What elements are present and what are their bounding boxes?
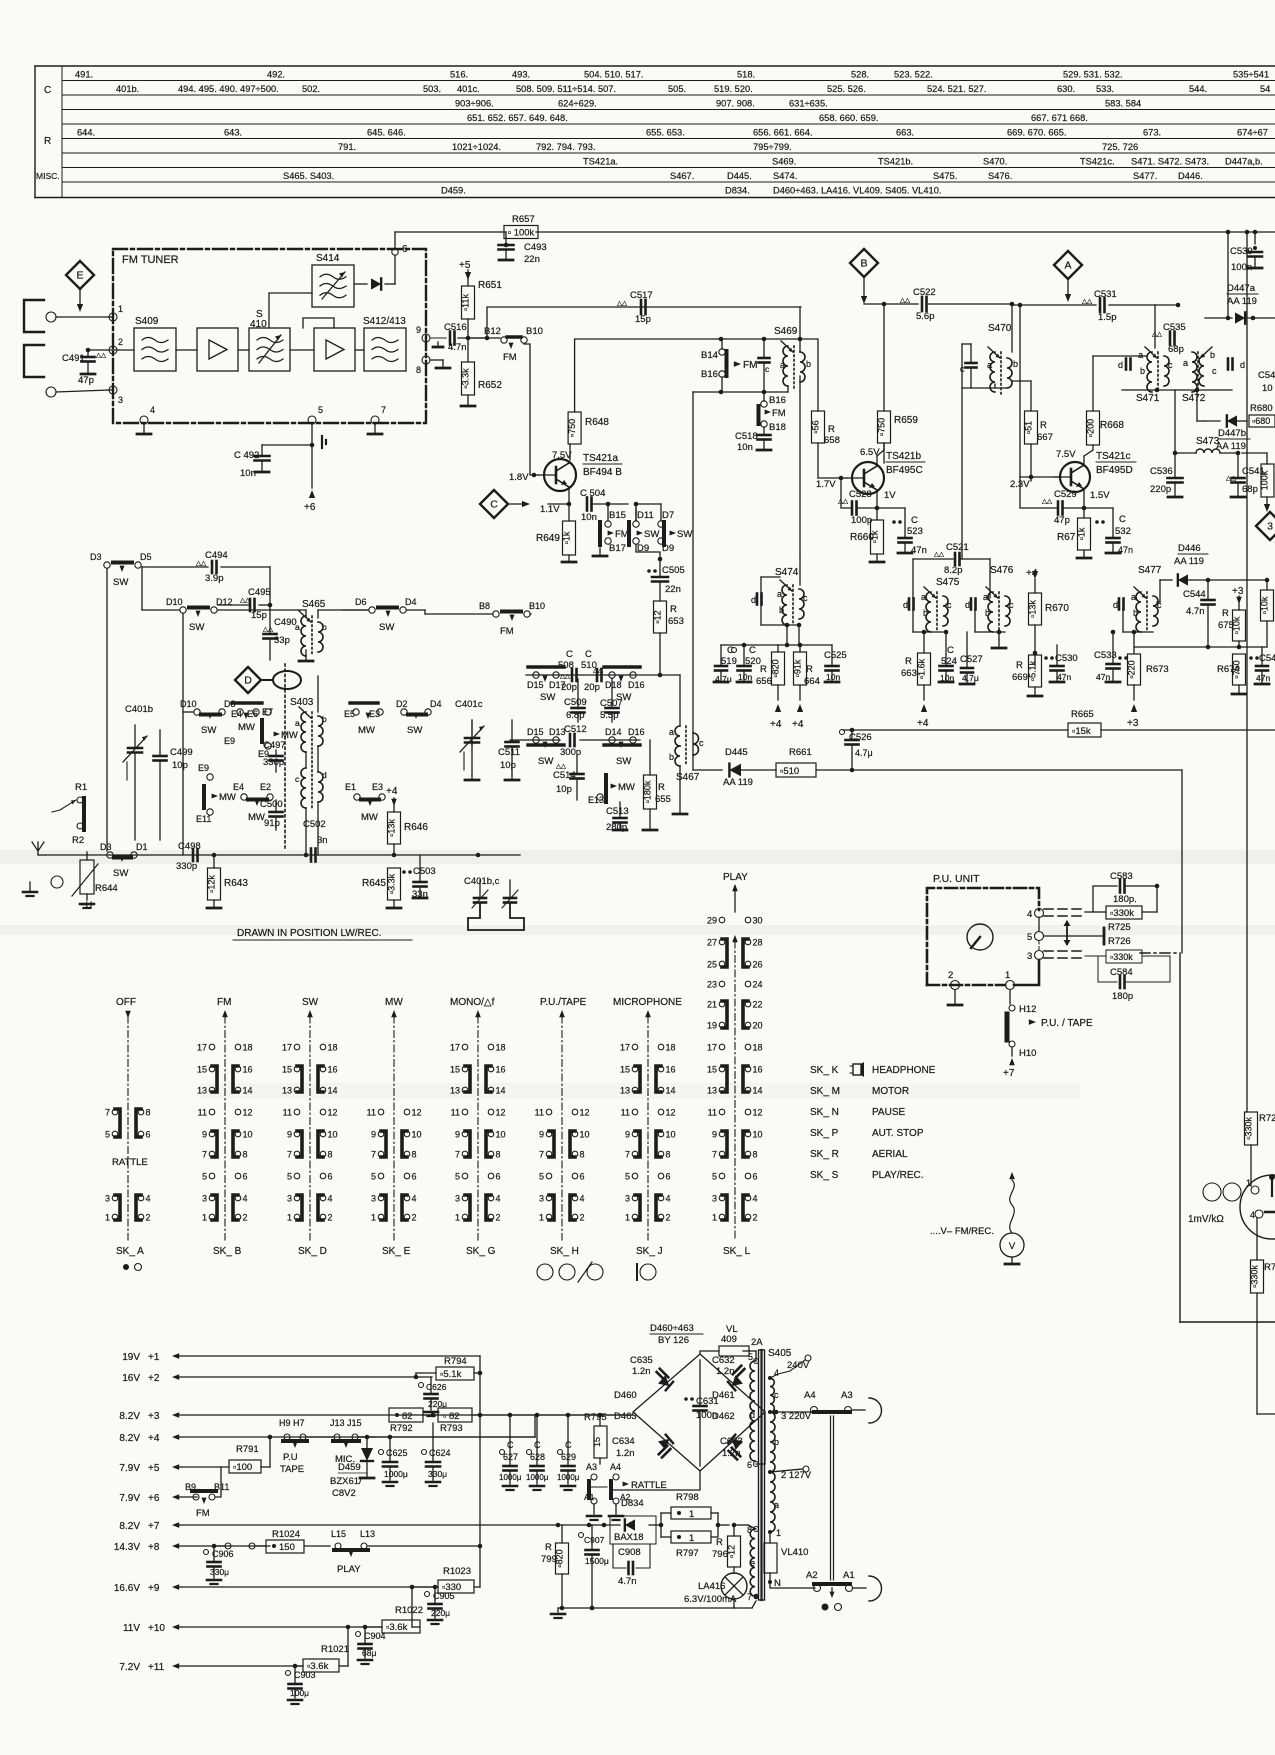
svg-text:BF495D: BF495D xyxy=(1096,465,1133,476)
capacitor C536 xyxy=(1150,453,1183,497)
diode D445 real xyxy=(693,747,776,788)
svg-text:H12: H12 xyxy=(1019,1004,1036,1015)
svg-text:8: 8 xyxy=(416,365,421,375)
svg-text:S475: S475 xyxy=(936,577,960,588)
svg-text:13: 13 xyxy=(197,1086,207,1096)
svg-text:220μ: 220μ xyxy=(431,1608,450,1618)
svg-text:2: 2 xyxy=(328,1213,333,1223)
svg-text:C518: C518 xyxy=(735,431,758,442)
svg-text:532: 532 xyxy=(1115,526,1131,537)
svg-text:d: d xyxy=(1113,600,1118,610)
wire R651 to C516 node xyxy=(466,319,487,340)
svg-text:20p: 20p xyxy=(584,682,600,693)
svg-text:S469.: S469. xyxy=(772,157,796,167)
switch column SK_L header xyxy=(732,935,738,1240)
svg-text:655: 655 xyxy=(655,794,671,805)
resistor R670 xyxy=(1028,593,1070,625)
S405 tap 2 xyxy=(768,1466,812,1481)
svg-text:100μ: 100μ xyxy=(290,1688,309,1698)
svg-text:68μ: 68μ xyxy=(362,1648,376,1658)
svg-text:22n: 22n xyxy=(665,584,681,595)
svg-text:18: 18 xyxy=(666,1043,676,1053)
node B12 B10 xyxy=(458,326,543,363)
svg-text:656. 661. 664.: 656. 661. 664. xyxy=(753,128,812,138)
svg-text:MW: MW xyxy=(361,812,378,823)
RATTLE label xyxy=(112,1157,148,1168)
svg-text:C502: C502 xyxy=(303,819,326,830)
wire S476 bottom xyxy=(975,608,1006,648)
svg-text:13: 13 xyxy=(707,1086,717,1096)
resistor R680 xyxy=(1249,403,1275,427)
capacitor S474 d xyxy=(751,594,762,606)
mains connector upper xyxy=(869,1398,881,1423)
svg-text:2A: 2A xyxy=(751,1337,763,1348)
S405 core xyxy=(759,1350,765,1600)
svg-text:1: 1 xyxy=(625,1213,630,1223)
svg-text:2: 2 xyxy=(753,1213,758,1223)
svg-text:c: c xyxy=(774,1390,779,1400)
resistor R644 xyxy=(72,852,118,911)
resistor R797 xyxy=(661,1513,729,1559)
svg-text:100n: 100n xyxy=(1231,262,1252,273)
svg-text:R644: R644 xyxy=(95,883,118,894)
svg-text:B11: B11 xyxy=(214,1482,229,1492)
svg-text:S412/413: S412/413 xyxy=(363,316,406,327)
svg-text:c: c xyxy=(947,600,952,610)
svg-text:8.2p: 8.2p xyxy=(944,565,963,576)
svg-text:10p: 10p xyxy=(172,760,188,771)
capacitor C514 xyxy=(553,755,584,800)
svg-text:9: 9 xyxy=(712,1130,717,1140)
svg-text:C624: C624 xyxy=(429,1448,451,1458)
transformer S469 xyxy=(774,326,811,388)
svg-text:SK_ J: SK_ J xyxy=(636,1246,663,1257)
right enclosure xyxy=(1140,953,1275,1322)
voltmeter V xyxy=(930,1172,1024,1264)
svg-text:DRAWN IN POSITION LW/REC.: DRAWN IN POSITION LW/REC. xyxy=(237,928,381,939)
resistor R1022 body xyxy=(365,1585,423,1633)
svg-text:▫ 100k: ▫ 100k xyxy=(508,228,535,239)
svg-text:10n: 10n xyxy=(240,468,256,479)
svg-text:C: C xyxy=(727,645,734,656)
svg-text:1.2n: 1.2n xyxy=(716,1366,735,1377)
svg-text:524. 521. 527.: 524. 521. 527. xyxy=(927,84,986,94)
node A diamond symbol xyxy=(1054,251,1082,302)
svg-text:TS421c.: TS421c. xyxy=(1080,157,1115,167)
svg-text:4: 4 xyxy=(412,1194,417,1204)
switch column SK_B contacts xyxy=(197,1043,253,1223)
svg-text:+4: +4 xyxy=(386,786,398,797)
wire mixer bottom grounds xyxy=(465,775,519,780)
svg-text:68p: 68p xyxy=(1242,484,1258,495)
svg-text:C493: C493 xyxy=(524,242,547,253)
svg-text:d: d xyxy=(750,1410,755,1420)
svg-text:5: 5 xyxy=(539,1172,544,1182)
svg-text:C625: C625 xyxy=(386,1448,408,1458)
capacitor C513 xyxy=(606,802,629,833)
svg-text:29: 29 xyxy=(707,916,717,926)
svg-text:D445: D445 xyxy=(725,747,748,758)
svg-text:+4: +4 xyxy=(148,1433,160,1444)
svg-text:TS421a.: TS421a. xyxy=(583,157,618,167)
svg-text:SW: SW xyxy=(538,756,553,767)
svg-text:R: R xyxy=(760,664,767,675)
svg-text:28: 28 xyxy=(753,938,763,948)
svg-text:R: R xyxy=(658,782,665,793)
svg-text:SW: SW xyxy=(113,577,128,588)
svg-text:SW: SW xyxy=(540,692,555,703)
svg-text:C503: C503 xyxy=(413,866,436,877)
capacitor C500 xyxy=(260,799,283,830)
svg-text:MW: MW xyxy=(248,812,265,823)
tuner terminal 5 xyxy=(308,405,323,424)
svg-text:533.: 533. xyxy=(1096,84,1114,94)
svg-text:▫1k: ▫1k xyxy=(562,531,572,544)
svg-text:D4: D4 xyxy=(430,699,442,709)
resistor R658 xyxy=(811,411,840,446)
svg-text:C401b,c: C401b,c xyxy=(464,876,500,887)
capacitor C491 xyxy=(62,348,113,386)
wire S470 down to C521 xyxy=(961,388,963,559)
supply +5 arrow xyxy=(459,260,471,286)
svg-text:▫91k: ▫91k xyxy=(793,659,803,677)
svg-text:▫330k: ▫330k xyxy=(1250,1265,1260,1288)
svg-text:C497: C497 xyxy=(263,740,286,751)
capacitor C493 body xyxy=(499,232,547,265)
transformer S465 xyxy=(295,599,327,656)
table entries xyxy=(75,70,1270,196)
svg-text:6: 6 xyxy=(243,1172,248,1182)
svg-text:651. 652. 657. 649. 648: 651. 652. 657. 649. 648. xyxy=(467,113,568,123)
svg-text:1: 1 xyxy=(1005,970,1010,981)
svg-text:R651: R651 xyxy=(478,280,502,291)
wire R667 path xyxy=(1012,381,1031,481)
svg-text:△△: △△ xyxy=(934,551,945,558)
svg-text:A3: A3 xyxy=(586,1462,597,1472)
resistor R791 xyxy=(229,1435,272,1473)
table row label MISC xyxy=(36,171,60,181)
svg-text:+4: +4 xyxy=(792,719,804,730)
svg-text:B10: B10 xyxy=(529,601,545,611)
PU pin 4 xyxy=(1027,909,1044,921)
svg-text:C584: C584 xyxy=(1110,967,1133,978)
S405 tap 3 xyxy=(768,1410,812,1422)
capacitor S475 d xyxy=(903,599,914,611)
svg-text:D460÷463. LA416. VL409. S40: D460÷463. LA416. VL409. S405. VL410. xyxy=(773,186,941,196)
svg-text:10n: 10n xyxy=(737,442,753,453)
svg-text:S405: S405 xyxy=(768,1348,792,1359)
svg-text:C509: C509 xyxy=(564,697,587,708)
svg-text:7.9V: 7.9V xyxy=(119,1493,140,1504)
svg-text:5: 5 xyxy=(748,1352,753,1362)
capacitor C498 xyxy=(176,841,201,872)
svg-text:C: C xyxy=(911,515,918,526)
svg-text:1mV/kΩ: 1mV/kΩ xyxy=(1188,1214,1224,1225)
svg-text:3: 3 xyxy=(712,1194,717,1204)
svg-text:33n: 33n xyxy=(412,889,428,900)
svg-text:17: 17 xyxy=(707,1043,717,1053)
svg-text:3: 3 xyxy=(1027,951,1032,962)
svg-text:16: 16 xyxy=(666,1065,676,1075)
svg-text:D447a,b.: D447a,b. xyxy=(1225,157,1263,167)
svg-text:14: 14 xyxy=(496,1086,506,1096)
resistor 100k body xyxy=(1242,453,1274,512)
svg-text:7: 7 xyxy=(371,1150,376,1160)
svg-text:▫12: ▫12 xyxy=(727,1545,737,1558)
tape reels icon xyxy=(1188,1183,1241,1225)
contacts H9 H7 body xyxy=(279,1418,307,1475)
svg-text:D459: D459 xyxy=(338,1462,361,1473)
svg-text:R793: R793 xyxy=(440,1423,463,1434)
svg-text:A1: A1 xyxy=(584,1492,595,1502)
svg-text:△△: △△ xyxy=(617,300,628,307)
resistor R793 xyxy=(423,1408,480,1434)
svg-text:R: R xyxy=(1016,660,1023,671)
supply +3 R675 xyxy=(1232,586,1244,610)
svg-text:C529: C529 xyxy=(1054,489,1077,500)
svg-text:AA 119: AA 119 xyxy=(723,777,753,788)
capacitor C508 body xyxy=(558,649,577,693)
transistor TS421c xyxy=(1054,449,1136,492)
capacitor C632 xyxy=(712,1355,744,1377)
svg-text:82: 82 xyxy=(402,1411,413,1422)
tuner terminal 1 xyxy=(109,304,123,321)
svg-text:16: 16 xyxy=(496,1065,506,1075)
wire TS421c collector xyxy=(1084,445,1093,466)
svg-text:11: 11 xyxy=(451,1108,460,1118)
diode D834 xyxy=(610,1498,656,1544)
svg-text:47p: 47p xyxy=(78,375,94,386)
svg-text:11: 11 xyxy=(708,1108,717,1118)
svg-text:33p: 33p xyxy=(274,635,290,646)
svg-text:▫510: ▫510 xyxy=(780,766,799,777)
svg-text:AUT. STOP: AUT. STOP xyxy=(872,1128,924,1139)
PU pin 2 xyxy=(948,970,962,1005)
svg-text:▫ 82: ▫ 82 xyxy=(443,1411,460,1422)
svg-text:655. 653.: 655. 653. xyxy=(646,128,685,138)
wire C529 left xyxy=(1020,477,1058,508)
svg-text:R661: R661 xyxy=(789,747,812,758)
svg-text:15p: 15p xyxy=(635,314,651,325)
svg-text:15p: 15p xyxy=(251,610,267,621)
wire S471S472 bottom to S473 xyxy=(1174,390,1176,453)
svg-text:J13 J15: J13 J15 xyxy=(330,1418,362,1428)
svg-text:A3: A3 xyxy=(841,1390,853,1401)
svg-text:E1: E1 xyxy=(345,782,356,792)
svg-text:E11: E11 xyxy=(196,814,211,824)
resistor R1023 xyxy=(412,1566,480,1593)
svg-text:a: a xyxy=(295,718,300,728)
svg-text:C401b: C401b xyxy=(125,704,153,715)
wire TS421a collector xyxy=(569,444,571,460)
svg-text:D11: D11 xyxy=(637,510,654,521)
switch column SK_E header xyxy=(385,997,403,1240)
svg-text:6: 6 xyxy=(402,244,408,255)
capacitor C634 xyxy=(612,1436,670,1459)
svg-text:a: a xyxy=(921,592,926,602)
svg-text:R674: R674 xyxy=(1217,664,1240,675)
svg-text:R643: R643 xyxy=(224,878,248,889)
svg-text:D3: D3 xyxy=(100,842,112,852)
wire B10 to TS421a base xyxy=(524,344,539,475)
svg-text:d: d xyxy=(965,600,970,610)
svg-text:▫5.1k: ▫5.1k xyxy=(440,1369,462,1380)
svg-text:330p: 330p xyxy=(176,861,197,872)
svg-text:8: 8 xyxy=(753,1150,758,1160)
svg-text:796: 796 xyxy=(712,1549,728,1560)
svg-text:8: 8 xyxy=(580,1150,585,1160)
svg-text:△△: △△ xyxy=(1082,298,1093,305)
svg-text:+9: +9 xyxy=(148,1583,160,1594)
resistor R649 xyxy=(536,504,576,562)
svg-text:18: 18 xyxy=(496,1043,506,1053)
svg-text:+3: +3 xyxy=(1127,718,1139,729)
svg-text:SK_ D: SK_ D xyxy=(298,1246,327,1257)
svg-text:D834.: D834. xyxy=(725,186,750,196)
svg-text:C500: C500 xyxy=(260,799,283,810)
contact E9 E11 left xyxy=(196,763,236,824)
capacitor C539 xyxy=(1230,232,1262,273)
wire TS421b collector riser xyxy=(877,443,884,466)
svg-text:8: 8 xyxy=(243,1150,248,1160)
transformer S476 xyxy=(983,565,1014,632)
svg-text:△△: △△ xyxy=(263,626,274,633)
svg-text:a: a xyxy=(1131,592,1136,602)
svg-text:7.5V: 7.5V xyxy=(552,450,572,461)
switch column SK_D header xyxy=(302,997,319,1240)
svg-text:S403: S403 xyxy=(290,697,314,708)
capacitor S469 c xyxy=(759,339,771,392)
svg-text:2: 2 xyxy=(243,1213,248,1223)
resistor R795 xyxy=(584,1412,607,1464)
svg-text:D4: D4 xyxy=(405,597,417,607)
svg-text:D15: D15 xyxy=(527,680,544,690)
svg-text:▫3.3k: ▫3.3k xyxy=(387,873,397,894)
svg-text:C494: C494 xyxy=(205,550,228,561)
contacts D15 D13 mid xyxy=(527,727,566,767)
wire detector lower tie xyxy=(1134,618,1267,649)
svg-text:13: 13 xyxy=(282,1086,292,1096)
transformer S470 xyxy=(987,323,1018,394)
capacitor C541 xyxy=(1226,453,1265,497)
svg-text:B15: B15 xyxy=(609,510,626,521)
resistor R671 xyxy=(1057,508,1091,558)
svg-text:+5: +5 xyxy=(148,1463,160,1474)
svg-text:D460: D460 xyxy=(614,1390,637,1401)
svg-text:19V: 19V xyxy=(122,1352,140,1363)
svg-text:280p: 280p xyxy=(606,822,627,833)
svg-text:3: 3 xyxy=(539,1194,544,1204)
svg-text:4: 4 xyxy=(146,1194,151,1204)
svg-text:D446: D446 xyxy=(1178,543,1201,554)
capacitor C520 xyxy=(737,645,761,682)
svg-text:e: e xyxy=(750,1558,755,1568)
contacts J13 J15 xyxy=(330,1418,362,1465)
svg-text:E3: E3 xyxy=(369,709,380,719)
capacitor C504 xyxy=(580,488,628,523)
wire R670 bottom xyxy=(1033,625,1038,665)
svg-text:7: 7 xyxy=(105,1108,110,1118)
svg-text:a: a xyxy=(774,1500,779,1510)
svg-text:630.: 630. xyxy=(1057,84,1075,94)
switch column SK_E label xyxy=(382,1246,411,1257)
svg-text:795÷799.: 795÷799. xyxy=(753,142,792,152)
svg-text:523. 522.: 523. 522. xyxy=(894,70,933,80)
svg-text:10p: 10p xyxy=(500,760,516,771)
svg-text:12: 12 xyxy=(580,1108,590,1118)
svg-text:1V: 1V xyxy=(884,490,896,501)
ground bus bottom xyxy=(551,1606,734,1618)
svg-text:E3: E3 xyxy=(372,782,383,792)
svg-text:7.2V: 7.2V xyxy=(119,1662,140,1673)
svg-text:+2: +2 xyxy=(148,1373,160,1384)
svg-text:C632: C632 xyxy=(712,1355,735,1366)
svg-text:▫750: ▫750 xyxy=(567,419,577,437)
svg-text:C522: C522 xyxy=(913,287,936,298)
svg-text:▫330k: ▫330k xyxy=(1244,1117,1254,1140)
svg-text:10n: 10n xyxy=(940,673,954,683)
wire C583 to right bus xyxy=(1156,885,1158,887)
S405 primary upper xyxy=(747,1352,759,1470)
svg-text:BZX61/: BZX61/ xyxy=(330,1476,362,1487)
svg-text:SK_ B: SK_ B xyxy=(213,1246,242,1257)
wire fuse to tap5 xyxy=(749,1351,756,1361)
wire emitter to C504 node xyxy=(548,503,569,505)
svg-text:C634: C634 xyxy=(612,1436,635,1447)
svg-text:1: 1 xyxy=(287,1213,292,1223)
capacitor C540 xyxy=(1258,370,1275,394)
svg-text:C906: C906 xyxy=(212,1549,234,1559)
tuner terminal 2 xyxy=(109,337,123,354)
svg-text:4: 4 xyxy=(150,405,155,415)
S405 tap 4 body xyxy=(768,1355,811,1380)
svg-text:R792: R792 xyxy=(390,1423,413,1434)
resistor R667 xyxy=(1024,411,1053,444)
svg-text:9: 9 xyxy=(371,1130,376,1140)
svg-text:S476: S476 xyxy=(990,565,1014,576)
resistor R792 xyxy=(389,1408,423,1434)
svg-text:903÷906.: 903÷906. xyxy=(455,99,494,109)
resistor R675 xyxy=(1218,608,1246,641)
capacitor C499 xyxy=(154,730,193,840)
svg-text:3: 3 xyxy=(202,1194,207,1204)
svg-text:663: 663 xyxy=(901,668,917,679)
node 3 diamond xyxy=(1256,512,1275,540)
svg-text:▫56: ▫56 xyxy=(811,420,821,433)
svg-text:544.: 544. xyxy=(1189,84,1207,94)
svg-text:494. 495. 490. 497÷500.: 494. 495. 490. 497÷500. xyxy=(178,84,279,94)
svg-text:B17: B17 xyxy=(609,543,626,554)
supply +4 over R670 xyxy=(1026,568,1038,593)
svg-text:C54: C54 xyxy=(1258,370,1275,381)
svg-text:C: C xyxy=(44,85,51,96)
wire bridge to fuse xyxy=(700,1351,749,1354)
svg-text:R: R xyxy=(1222,608,1229,619)
tuner pin5 bypass cap xyxy=(322,436,326,448)
svg-text:664: 664 xyxy=(804,676,820,687)
resistor R796 xyxy=(712,1523,756,1567)
resistor R673 xyxy=(1127,654,1169,729)
svg-text:300p: 300p xyxy=(560,747,581,758)
svg-text:6: 6 xyxy=(580,1172,585,1182)
resistor R653 xyxy=(653,592,684,677)
svg-text:6: 6 xyxy=(328,1172,333,1182)
svg-text:BY 126: BY 126 xyxy=(658,1335,689,1346)
tuner terminal 8 xyxy=(416,356,450,375)
svg-text:R791: R791 xyxy=(236,1444,259,1455)
svg-text:c: c xyxy=(1168,360,1173,370)
svg-text:FM: FM xyxy=(196,1508,210,1519)
